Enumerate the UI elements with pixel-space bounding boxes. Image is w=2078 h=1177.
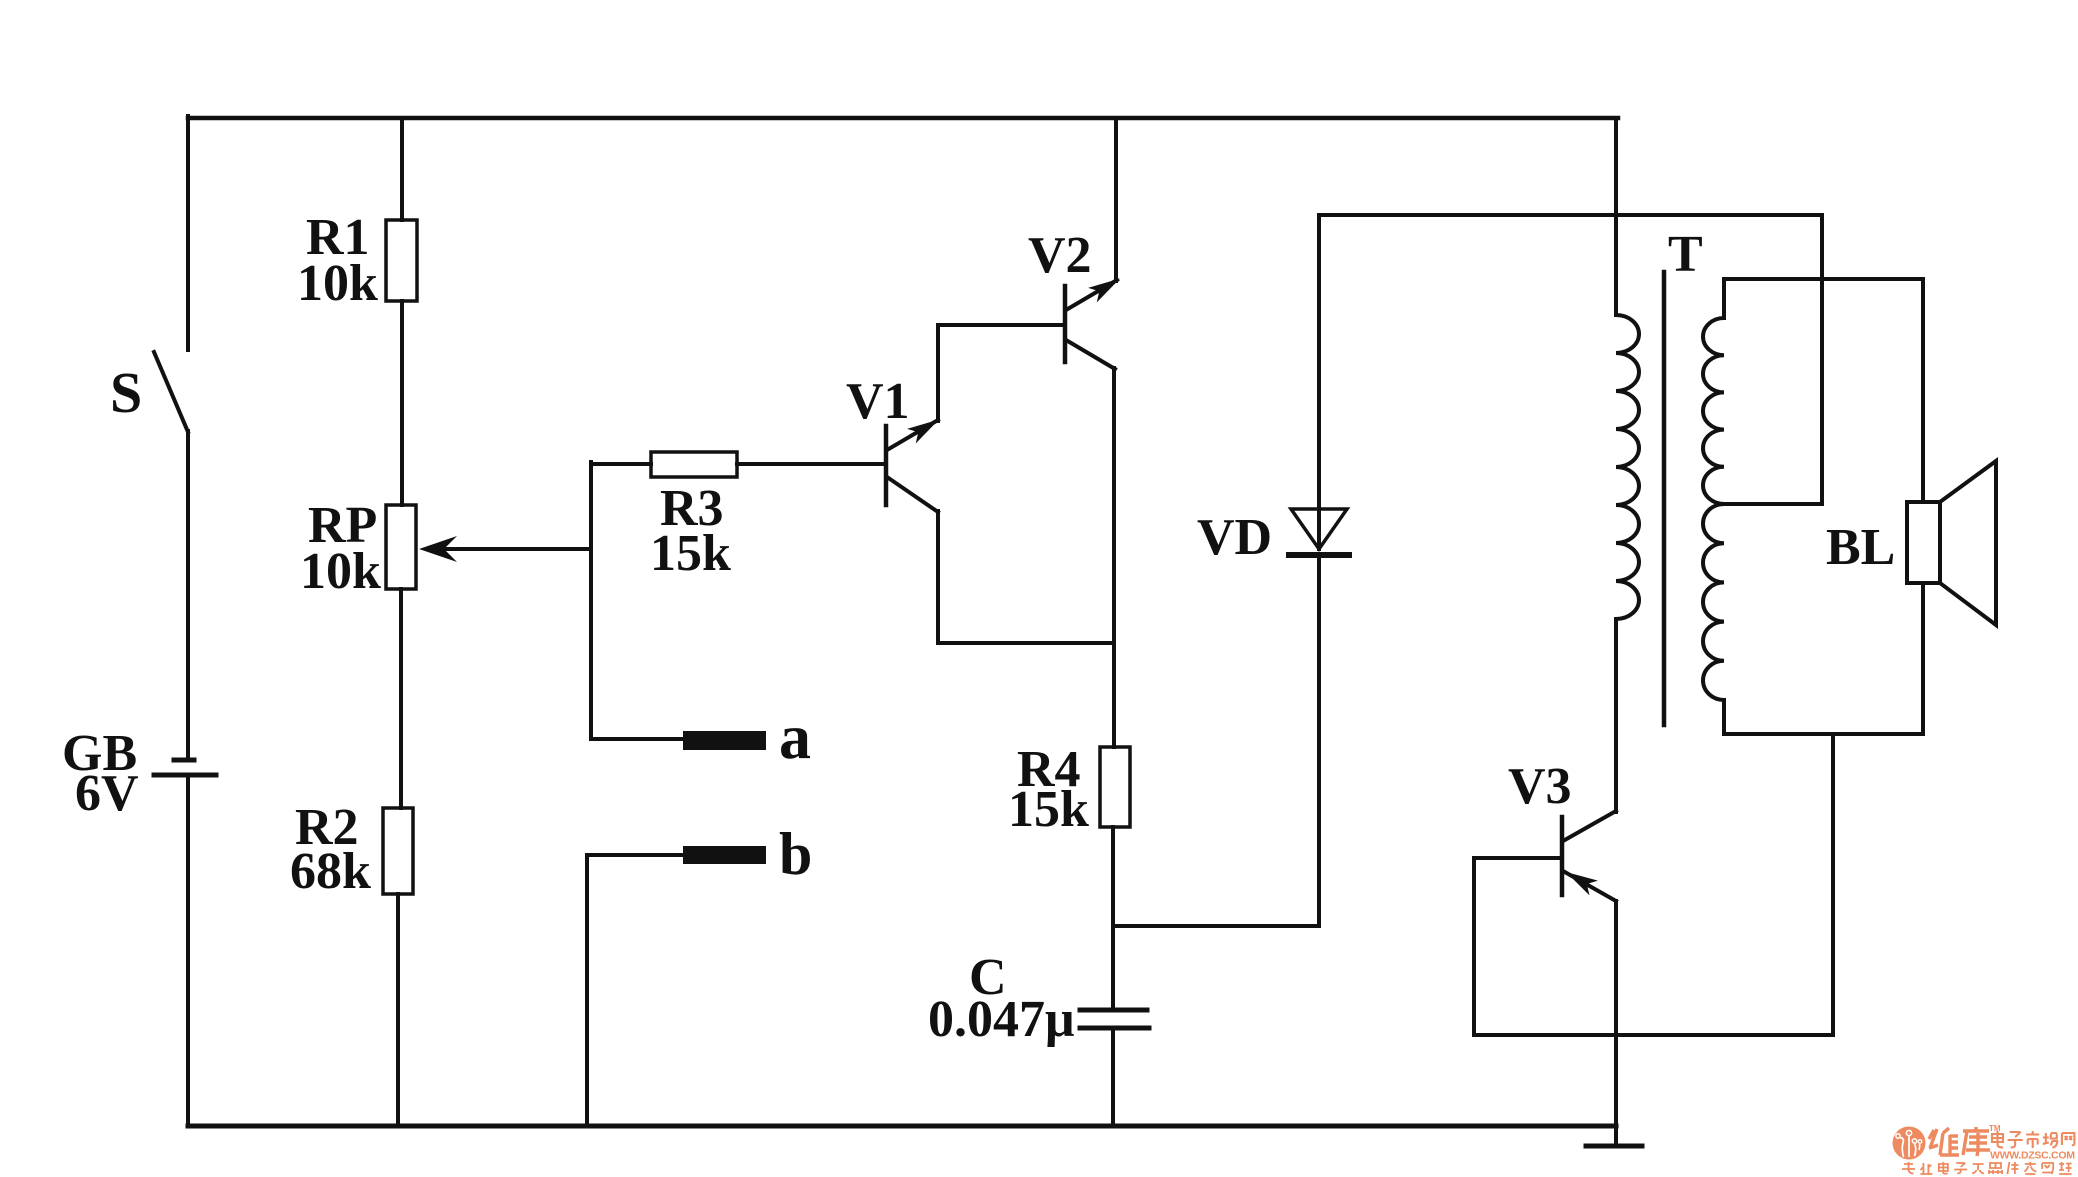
terminal b — [683, 846, 766, 864]
wire secondary top — [1724, 277, 1923, 281]
watermark logo — [1893, 1127, 1926, 1160]
svg-text:10k: 10k — [297, 255, 378, 312]
svg-text:a: a — [779, 701, 811, 772]
battery GB 6V — [174, 758, 194, 763]
speaker BL — [1907, 502, 1940, 583]
svg-text:S: S — [110, 360, 142, 425]
wire R1 top lead — [400, 118, 404, 220]
wire secondary bottom — [1724, 732, 1923, 736]
watermark slogan characters — [1902, 1162, 2072, 1174]
wire V1 collector drop — [936, 511, 940, 643]
svg-text:b: b — [779, 821, 812, 887]
svg-text:TM: TM — [1989, 1124, 2001, 1133]
wire top rail — [188, 116, 1618, 121]
svg-text:10k: 10k — [300, 543, 381, 600]
wire speaker column lower — [1921, 583, 1925, 734]
svg-text:68k: 68k — [290, 843, 371, 900]
wire R4 to capacitor — [1111, 827, 1115, 1010]
transistor V2 — [1063, 286, 1068, 362]
svg-text:T: T — [1668, 226, 1703, 283]
wire speaker bottom drop — [1831, 734, 1835, 1035]
wire V1 to V2 base — [938, 323, 1065, 327]
svg-text:V3: V3 — [1508, 758, 1572, 815]
wire primary to V3 collector — [1614, 619, 1618, 812]
transistor V1 — [884, 426, 889, 505]
wire junction to VD — [1113, 924, 1319, 928]
watermark dianzi-shichang-wang characters — [1992, 1131, 2074, 1148]
potentiometer RP — [386, 505, 416, 589]
wire V3 base riser — [1472, 858, 1476, 1035]
wire left rail middle — [186, 431, 190, 757]
svg-text:V2: V2 — [1028, 227, 1092, 284]
resistor R2 — [383, 808, 413, 894]
wire RP to R2 — [399, 589, 403, 808]
transistor V3 — [1560, 817, 1565, 895]
resistor R4 — [1100, 747, 1130, 827]
wire V3 base lead — [1474, 856, 1561, 860]
diode VD — [1291, 509, 1347, 549]
svg-text:VD: VD — [1197, 509, 1272, 566]
svg-text:6V: 6V — [75, 765, 139, 822]
svg-text:15k: 15k — [650, 525, 731, 582]
svg-text:WWW.DZSC.COM: WWW.DZSC.COM — [1990, 1150, 2075, 1162]
wire tap to secondary — [1724, 502, 1822, 506]
ground — [1586, 1144, 1642, 1149]
wire VD drop — [1317, 558, 1321, 926]
wire primary feed from top rail — [1614, 118, 1618, 315]
wire speaker column upper — [1921, 279, 1925, 502]
wire V3 emitter drop — [1614, 901, 1618, 1146]
wire left rail upper — [186, 116, 190, 350]
wire left rail lower — [186, 777, 190, 1126]
wire V2 collector drop to R4 — [1112, 368, 1116, 747]
wire V3 collector riser — [1614, 619, 1618, 812]
transformer core — [1662, 272, 1667, 725]
wire lead to terminal b — [587, 853, 683, 857]
wire bottom rail — [188, 1124, 1616, 1129]
RP wiper arrow — [438, 547, 591, 551]
wire VD riser — [1317, 215, 1321, 549]
wire lead to terminal a — [591, 737, 683, 741]
resistor R3 — [651, 452, 737, 477]
watermark wei-ku characters — [1929, 1127, 1990, 1156]
svg-text:15k: 15k — [1008, 781, 1089, 838]
wire tap drop — [1820, 215, 1824, 504]
transformer T secondary coil upper — [1703, 279, 1724, 504]
wire V3 base loop bottom — [1474, 1033, 1833, 1037]
svg-text:V1: V1 — [846, 373, 910, 430]
wire R3 right lead — [737, 462, 884, 466]
resistor R1 — [386, 220, 417, 301]
wire R3 riser — [589, 462, 593, 739]
wire R3 left lead — [591, 462, 651, 466]
transformer T secondary coil lower — [1703, 504, 1724, 734]
wire top tap run — [1319, 213, 1822, 217]
terminal a — [683, 731, 766, 750]
wire V1 collector to V2 column — [938, 641, 1113, 645]
wire b riser — [585, 855, 589, 1126]
wire C to bottom rail — [1111, 1030, 1115, 1126]
switch S — [154, 352, 188, 432]
wire V2 emitter riser to top rail — [1114, 118, 1118, 281]
wire R1 to RP — [400, 301, 404, 505]
wire V1 emitter riser — [936, 325, 940, 421]
svg-text:BL: BL — [1826, 519, 1895, 576]
transformer T primary coil — [1616, 315, 1639, 619]
svg-text:0.047μ: 0.047μ — [928, 991, 1074, 1048]
capacitor C — [1080, 1008, 1147, 1013]
wire R2 to bottom rail — [396, 894, 400, 1126]
